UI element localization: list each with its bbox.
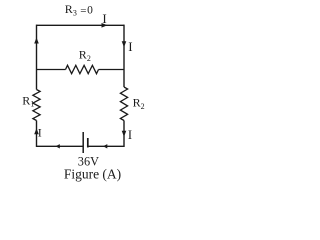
wire middle horizontal left (37, 69, 66, 71)
wire right vertical upper (123, 25, 125, 87)
arrow current left on bottom wire right segment (103, 144, 107, 148)
wire left vertical upper (36, 25, 38, 90)
svg-text:0: 0 (87, 4, 93, 16)
wire top (R3=0 short branch) (37, 24, 125, 26)
svg-text:Figure (A): Figure (A) (64, 166, 121, 181)
arrow current down right wire bottom (122, 131, 127, 137)
svg-text:I: I (128, 128, 132, 142)
arrow current down right wire top (122, 41, 127, 47)
svg-text:I: I (102, 11, 106, 26)
wire bottom right of battery (88, 145, 124, 147)
resistor R2 middle-branch zigzag (66, 65, 99, 73)
svg-text:R2: R2 (133, 95, 145, 110)
wire bottom left of battery (37, 145, 84, 147)
resistor R2 right zigzag (120, 87, 127, 121)
resistor R1 left zigzag (33, 90, 40, 121)
arrow current up left wire bottom (34, 128, 39, 134)
battery short plate (87, 138, 89, 148)
battery long plate (82, 132, 84, 153)
svg-text:I: I (128, 39, 132, 54)
wire left vertical lower (36, 121, 38, 148)
svg-text:I: I (38, 125, 42, 139)
svg-text:R2: R2 (79, 47, 91, 62)
arrow current up left wire top (34, 38, 39, 44)
svg-text:R3: R3 (65, 2, 77, 17)
wire middle horizontal right (99, 69, 125, 71)
arrow current left on bottom wire left segment (56, 144, 60, 148)
wire right vertical lower (123, 121, 125, 148)
arrow current I top wire right (102, 23, 108, 28)
svg-text:=: = (80, 5, 86, 17)
